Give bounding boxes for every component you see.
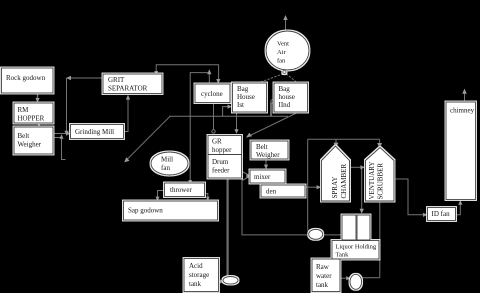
svg-text:Weigher: Weigher [18,141,42,149]
arrowhead diagonal into belt weigher corner [246,133,252,138]
wire scrubber header horizontal [308,138,380,140]
svg-text:cyclone: cyclone [201,90,223,98]
wire cyclone bottom to GR hopper [213,103,215,130]
wire belt weigher to grinding mill [54,133,69,135]
arrowhead into thrower top [188,180,192,184]
arrowhead down at mill feed junction [64,131,68,136]
wire cyclone riser segment into cyclone top [208,73,210,84]
svg-text:Mill: Mill [161,156,173,164]
wire drum feeder drop to liquor pump [242,178,309,235]
ellipse Mill fan [151,152,188,175]
arrowhead down into holding tanks [360,209,364,214]
box Bag house IInd [274,83,308,112]
ellipse acid pump [223,277,238,285]
svg-text:fan: fan [277,58,286,65]
box Liquor Holding Tank [332,241,379,260]
svg-text:Belt: Belt [256,143,268,151]
arrowhead into spray chamber from den [317,185,322,189]
svg-text:House: House [237,93,255,101]
box Raw water tank [312,259,340,292]
arrowhead into acid pump [220,279,224,283]
wire ID fan to chimney [455,203,461,215]
arrowhead thrower right stub down [206,197,210,201]
svg-text:CHAMBER: CHAMBER [340,164,348,199]
svg-text:ID fan: ID fan [432,210,451,218]
svg-text:Bag: Bag [237,85,249,93]
wire header to venturi apex [379,139,381,143]
wire header to spray chamber apex [335,139,337,143]
svg-text:Ist: Ist [237,101,244,109]
arrowhead into grit separator top [154,71,158,76]
wire raw water pump to venturi drop [362,277,380,279]
wire rock godown to RM hopper [37,93,39,100]
wire den to spray chamber [305,186,317,188]
svg-text:house: house [279,93,295,101]
svg-text:den: den [266,188,277,196]
box RM HOPPER [14,103,53,123]
arrowhead into sap godown from thrower [156,197,160,201]
wire header riser to bag house IInd (thick) [270,103,272,117]
svg-text:GR: GR [212,138,222,146]
box Drum feeder [208,155,242,179]
box Acid storage tank [184,259,219,292]
wire bag house IInd diagonal to belt weigher [248,113,298,137]
arrowhead into raw water pump [346,276,351,280]
box chimney [446,102,476,200]
svg-text:Tank: Tank [336,252,350,259]
svg-text:Sap godown: Sap godown [128,207,163,215]
wire belt weigher to mixer [265,159,267,166]
box Rock godown [2,68,54,93]
box den [261,185,305,197]
wire bag house Ist to GR hopper [236,112,238,131]
wire vent fan to bag house IInd (diagonal) [286,74,296,82]
node knot below vent fan [283,70,286,73]
wire spray chamber to venturi scrubber [351,166,362,168]
wire liquor pump riser to scrubber header [307,139,309,230]
svg-text:chimney: chimney [450,106,475,114]
svg-text:Bag: Bag [279,85,291,93]
arrowhead grit reject pointing left [66,76,71,80]
wire reject drop to mill feed junction [66,78,68,133]
svg-text:SCRUBBER: SCRUBBER [377,163,385,200]
svg-text:IInd: IInd [279,101,291,109]
wire chimney exhaust up [464,93,466,102]
wire diagonal to mid header [126,116,170,160]
box GRIT SEPARATOR [103,74,162,94]
box GR hopper [208,136,242,155]
svg-text:Drum: Drum [212,158,229,166]
wire drum feeder to acid pump (thick) [227,178,229,276]
svg-text:Air: Air [277,49,287,56]
wire spray/venturi gap drop to tanks [361,167,363,210]
arrowhead into RM hopper [35,98,39,103]
svg-text:hopper: hopper [212,146,232,154]
arrowhead into venturi apex [377,143,382,148]
svg-text:thrower: thrower [170,186,192,194]
box mixer [250,170,285,183]
svg-text:HOPPER: HOPPER [18,115,45,123]
svg-text:Vent: Vent [277,41,289,48]
arrowhead diagonal lower end [124,157,129,162]
arrowhead into mixer from belt weigher [264,165,268,170]
svg-text:GRIT: GRIT [108,76,125,84]
svg-text:Grinding Mill: Grinding Mill [75,128,114,136]
svg-text:RM: RM [18,106,30,114]
wire top loop grit separator to cyclone [156,65,218,80]
box Belt Weigher left [14,127,53,154]
wire vent air fan exhaust up [285,19,287,31]
vessel SPRAY CHAMBER [322,146,350,201]
wire riser at belt weigher with stub [62,138,66,160]
box cyclone [195,84,230,103]
wire venturi to ID fan [394,179,425,215]
wire belt weigher lower stub [54,137,62,139]
arrowhead into spray chamber apex [334,143,339,148]
arrowhead chimney exhaust [462,89,467,94]
arrowhead vent fan exhaust [283,15,287,20]
ellipse liquor pump [309,229,323,239]
wire grinding mill to grit separator [124,99,129,132]
svg-text:fan: fan [161,164,170,172]
wire liquor pump to holding tanks [323,234,342,236]
svg-text:tank: tank [189,280,202,288]
vessel VENTUARY SCRUBBER [366,148,395,202]
svg-text:VENTUARY: VENTUARY [368,161,376,199]
arrowhead into grinding mill [66,131,71,135]
box Grinding Mill [71,125,124,139]
arrowhead into belt weigher [37,123,41,127]
svg-text:water: water [316,272,332,280]
box ID fan [428,208,456,221]
svg-text:storage: storage [189,271,209,279]
wire venturi bottom drop [379,201,381,278]
arrowhead into cyclone top [216,79,220,84]
svg-text:SPRAY: SPRAY [331,177,339,199]
wire vent fan to bag house Ist (diagonal) [259,74,283,83]
box Sap godown [124,201,218,220]
wire acid tank to pump [219,281,222,283]
ellipse raw water pump [350,274,362,289]
wire thrower to sap godown left [158,191,165,200]
wire grit separator reject to left [69,77,103,79]
svg-text:Weigher: Weigher [256,151,280,159]
arrowhead into GR hopper from bag house Ist [234,129,238,134]
node circle at GR hopper inlet [212,130,215,133]
arrowhead into chimney bottom [458,200,462,205]
box Bag House Ist [233,83,267,112]
svg-text:SEPARATOR: SEPARATOR [108,85,148,93]
arrowhead up at belt weigher riser [60,134,64,139]
holding tank cell right [357,215,370,240]
svg-text:feeder: feeder [212,167,230,175]
arrowhead into grit separator bottom [126,95,130,100]
svg-text:mixer: mixer [254,173,271,181]
svg-text:Liquor Holding: Liquor Holding [336,244,377,251]
node hook at bag house IInd inlet [271,100,274,103]
holding tank cell left [342,215,356,240]
arrowhead into venturi from spray chamber [360,165,365,169]
wire raw water tank to pump [340,277,348,279]
ellipse Vent Air fan [266,31,309,70]
svg-text:tank: tank [316,281,329,289]
svg-text:Raw: Raw [316,263,330,271]
arrowhead into bag house Ist left [228,105,233,109]
arrowhead into mixer from drum feeder [246,174,250,178]
arrowhead up at cyclone riser corner [207,69,211,74]
svg-text:Rock godown: Rock godown [6,74,46,82]
svg-text:Belt: Belt [18,132,30,140]
wire thrower right stub [205,194,208,199]
wire RM hopper to belt weigher [38,123,40,125]
arrowhead into ID fan [423,213,428,217]
box Belt Weigher right [251,141,288,159]
wire cyclone riser to thrower drop [190,73,209,183]
wire header branch to bag house Ist [223,107,230,117]
wire mid header horizontal [169,115,288,117]
wire drum feeder to mixer lower [242,177,249,181]
wire drum feeder to mixer upper [242,172,249,176]
svg-text:Acid: Acid [189,262,203,270]
box thrower [165,183,205,197]
